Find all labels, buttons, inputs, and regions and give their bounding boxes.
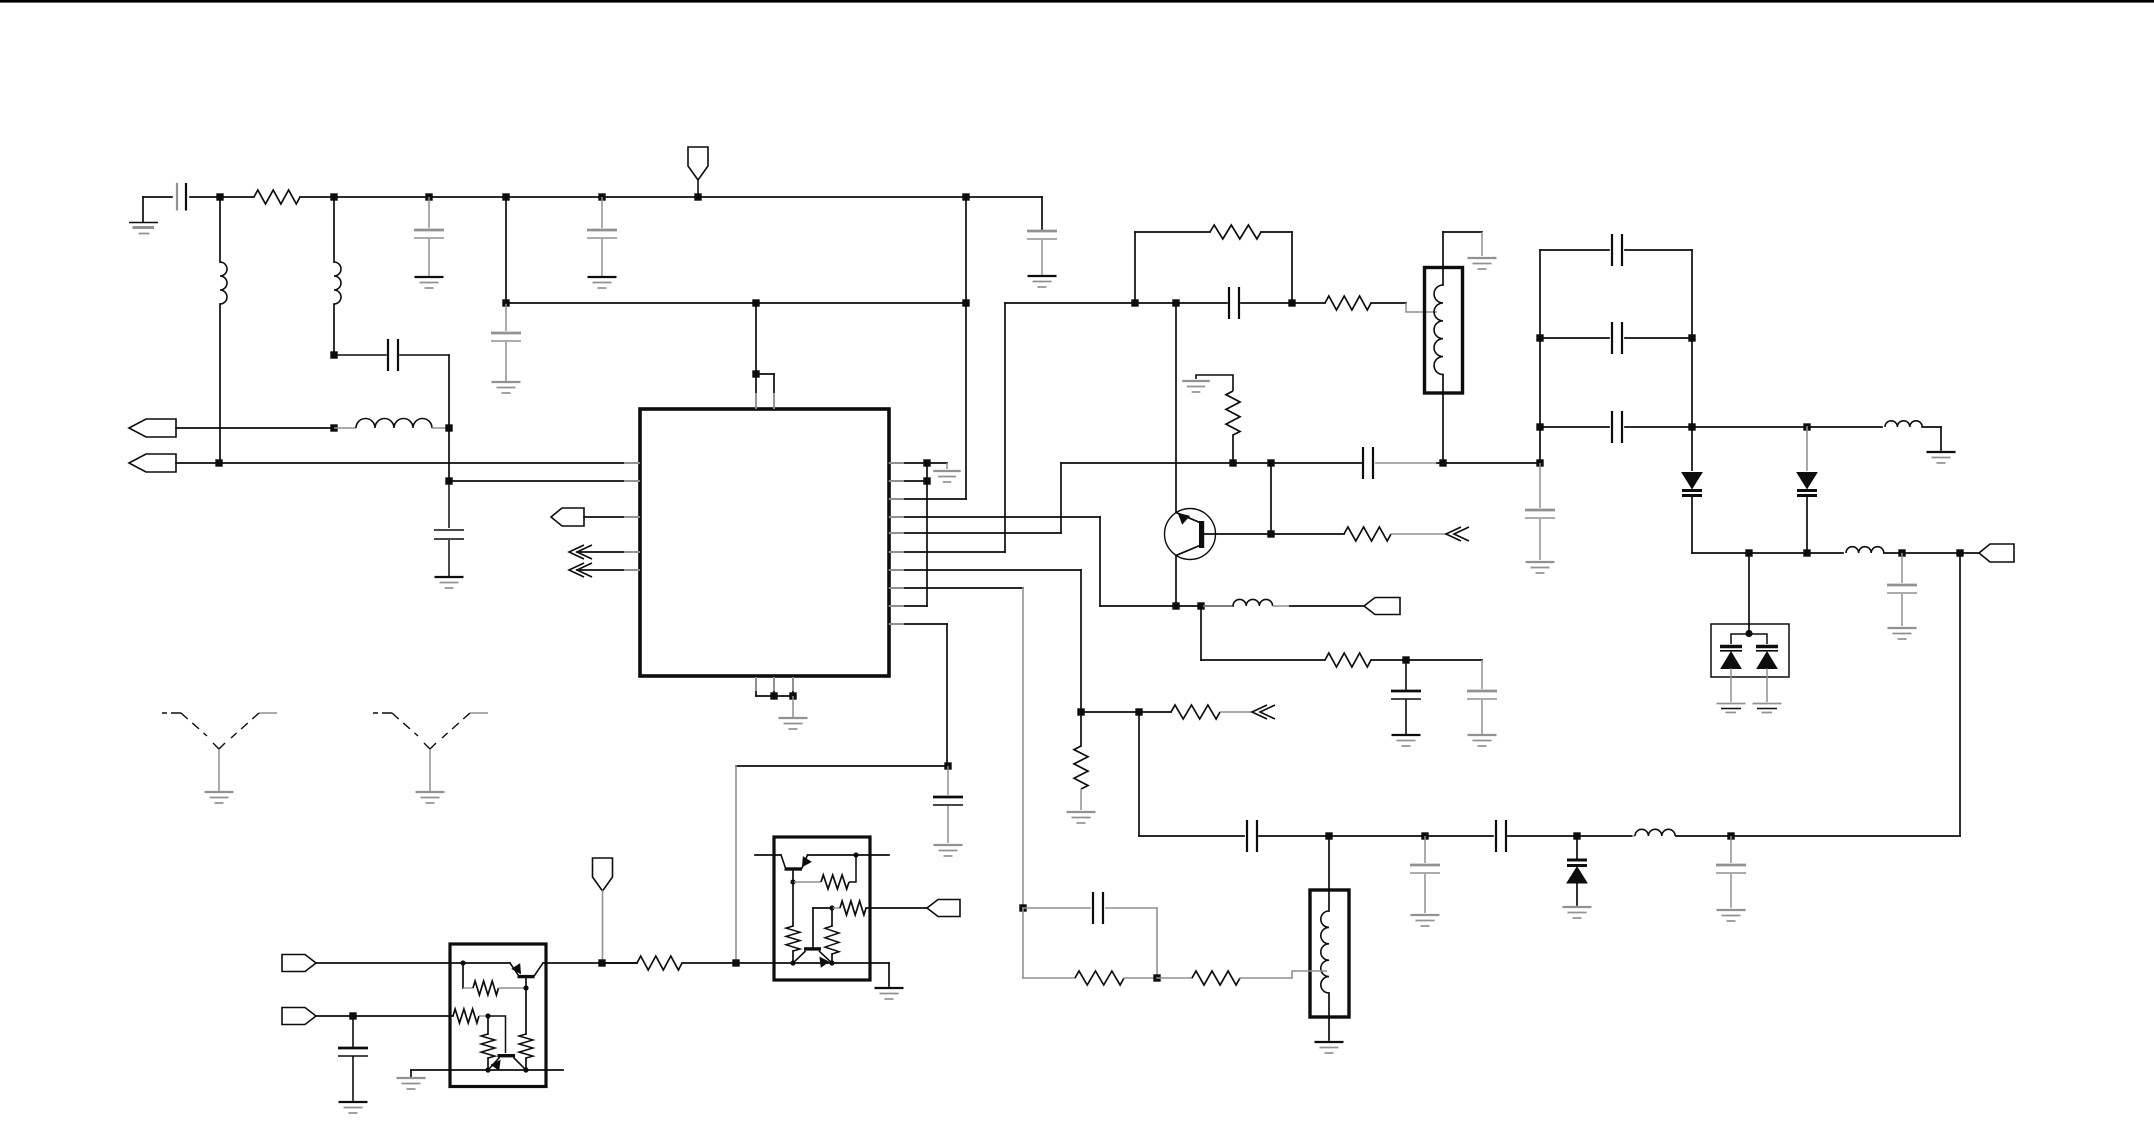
wire (1061, 462, 1361, 464)
wire (1577, 835, 1632, 837)
node J (962, 299, 969, 306)
wire (176, 462, 640, 464)
wire (1481, 232, 1483, 256)
ground (1888, 627, 1917, 629)
resistor R18 (831, 908, 833, 926)
wire (1099, 517, 1101, 606)
chassis symbol AE2 (373, 712, 378, 714)
wire (506, 302, 966, 304)
wire (1134, 232, 1136, 303)
pin stub (624, 516, 640, 518)
diode D5 (1756, 645, 1778, 648)
pin stub (889, 623, 904, 625)
wire (889, 516, 1100, 518)
inductor L7 (1885, 421, 1922, 427)
node A (216, 193, 223, 200)
wire (889, 532, 1061, 534)
inductor L3 (334, 427, 356, 429)
pin stub (792, 677, 794, 691)
ground resistor tap (1196, 375, 1233, 391)
ground (779, 717, 808, 719)
ground (1717, 909, 1746, 911)
wire (1676, 835, 1960, 837)
node AT (1745, 549, 1752, 556)
wire (1005, 302, 1135, 304)
capacitor C14 (1540, 249, 1609, 251)
chassis symbol AE1 (162, 712, 167, 714)
wire (525, 979, 527, 988)
wire (316, 1015, 453, 1017)
page top border (0, 0, 2154, 3)
pin stub (888, 569, 903, 571)
capacitor C12 (1362, 447, 1364, 479)
port P1 (129, 419, 176, 437)
node B (330, 193, 337, 200)
wire (1731, 634, 1767, 644)
node AA (1439, 459, 1446, 466)
inductor L6 (1846, 547, 1884, 553)
ground (934, 844, 963, 846)
diode D3 (1576, 836, 1578, 858)
wire (410, 1070, 412, 1077)
node AU (1803, 549, 1810, 556)
wire (889, 498, 966, 500)
node AY (598, 959, 605, 966)
node X (1172, 299, 1179, 306)
pin stub (888, 498, 903, 500)
wire (1060, 463, 1062, 533)
capacitor C11 (1135, 302, 1227, 304)
node G (962, 193, 969, 200)
pin stub (889, 605, 904, 607)
pin stub (773, 677, 775, 691)
transformer T2 coil (1328, 836, 1330, 911)
wire (1100, 605, 1233, 607)
pin stub (889, 498, 904, 500)
wire (449, 480, 640, 482)
capacitor C6 (334, 354, 386, 356)
pin stub (888, 551, 903, 553)
wire (1270, 463, 1272, 534)
wire (736, 765, 948, 767)
pin stub (889, 516, 904, 518)
wire (176, 427, 334, 429)
capacitor C2 (428, 197, 430, 228)
resistor R16 (832, 907, 840, 909)
node BD (485, 1013, 490, 1018)
wire (755, 374, 757, 409)
capacitor C15 (1540, 337, 1609, 339)
node AB (1536, 459, 1543, 466)
pin stub (889, 569, 904, 571)
resistor R6 (1171, 705, 1220, 719)
ground (1526, 561, 1555, 563)
ground (933, 470, 961, 472)
resistor R7 (1080, 712, 1082, 746)
node D (502, 193, 509, 200)
wire (1175, 303, 1177, 513)
resistor R2 (1210, 225, 1261, 239)
wire (1081, 711, 1171, 713)
TVS box (1711, 624, 1789, 677)
ground (875, 987, 904, 989)
ground (1315, 1041, 1344, 1043)
pin stub (792, 677, 794, 691)
ground (1028, 275, 1057, 277)
node BB (523, 985, 528, 990)
wire (1959, 553, 1961, 836)
resistor R10 (1157, 977, 1192, 979)
pin stub (889, 551, 904, 553)
wire (1261, 231, 1292, 233)
chevron CH3 (1446, 527, 1461, 541)
wire (773, 374, 775, 409)
chevron CH1 (569, 545, 584, 559)
node AH (1135, 708, 1142, 715)
wire (1232, 435, 1234, 463)
inductor L4 (1203, 605, 1233, 607)
capacitor C8 (947, 766, 949, 795)
capacitor C13 (1539, 463, 1541, 508)
wire (1200, 606, 1202, 660)
resistor R13 (487, 1016, 489, 1034)
node E (598, 193, 605, 200)
ground (1067, 811, 1096, 813)
pin stub (755, 393, 757, 409)
wire (812, 908, 814, 947)
resistor R17 (792, 882, 794, 926)
node BI (829, 905, 834, 910)
transistor Q2b (498, 1054, 516, 1057)
wire (756, 373, 774, 375)
node AL (1727, 832, 1734, 839)
wire (946, 463, 948, 469)
wire (792, 872, 794, 883)
port P2 (129, 454, 176, 472)
resistor R14 (525, 988, 527, 1034)
wire (1692, 426, 1882, 428)
pin stub (888, 462, 903, 464)
capacitor C3 (601, 197, 603, 228)
wire (1135, 231, 1210, 233)
pin stub (889, 462, 904, 464)
transformer T1 coil (1442, 232, 1444, 285)
wire (889, 605, 927, 607)
node Q (770, 692, 777, 699)
node I (752, 299, 759, 306)
ground (1468, 734, 1497, 736)
wire (1329, 835, 1493, 837)
node AE (1197, 602, 1204, 609)
wire (792, 676, 794, 696)
wire (773, 676, 775, 696)
pin stub (624, 462, 640, 464)
resistor R8 (602, 962, 637, 964)
wire (755, 303, 757, 374)
wire (926, 463, 928, 606)
port P5 (1364, 598, 1400, 615)
transistor Q2a (510, 963, 519, 976)
pin stub (889, 480, 904, 482)
wire (889, 587, 1023, 589)
node W (1288, 299, 1295, 306)
wire (888, 963, 890, 986)
pin stub (624, 569, 640, 571)
wire (1138, 712, 1140, 836)
pin stub (755, 677, 757, 691)
node K (752, 370, 759, 377)
node AP (1688, 334, 1695, 341)
capacitor C4 (1027, 230, 1057, 233)
resistor R4 (1226, 391, 1240, 435)
wire (577, 569, 640, 571)
port P6 (1979, 544, 2014, 562)
node L (330, 424, 337, 431)
resistor R6a (1201, 659, 1325, 661)
ground (1753, 703, 1782, 705)
pin stub (773, 393, 775, 409)
resistor R12 (453, 1009, 479, 1023)
capacitor C9 (1023, 907, 1090, 909)
pin stub (888, 480, 903, 482)
ground (1411, 914, 1440, 916)
node AR (1688, 423, 1695, 430)
node BH (790, 879, 795, 884)
wire (755, 676, 757, 696)
power port VCC1 (688, 147, 708, 180)
transformer T1 box (1425, 268, 1463, 394)
power port VCC2 (593, 858, 613, 891)
wire (1539, 250, 1541, 463)
block B1 (450, 944, 546, 1087)
transformer T2 box (1310, 890, 1349, 1017)
capacitor C21 (1424, 836, 1426, 863)
inductor L1 (219, 197, 221, 262)
node AV (1898, 549, 1905, 556)
ground (1927, 451, 1956, 453)
inductor L5 (1632, 835, 1635, 837)
wire (946, 624, 948, 766)
node AI (1325, 832, 1332, 839)
pin stub (888, 623, 903, 625)
ground (397, 1077, 426, 1079)
capacitor C22 (1730, 836, 1732, 863)
wire (813, 907, 832, 909)
wire (1156, 908, 1158, 978)
wire (584, 516, 640, 518)
wire (792, 696, 794, 717)
diode D4 (1720, 645, 1742, 648)
capacitor C19 (1246, 820, 1248, 852)
capacitor C17 (1405, 660, 1407, 689)
ground (492, 381, 521, 383)
wire (889, 462, 947, 464)
transistor Q3b (804, 947, 821, 950)
ground (1717, 703, 1746, 705)
wire (1022, 908, 1024, 978)
wire (1041, 197, 1043, 229)
wire (1204, 533, 1271, 535)
wire (1139, 835, 1244, 837)
node AF (1402, 656, 1409, 663)
node AK (1573, 832, 1580, 839)
wire (889, 480, 927, 482)
chevron CH2 (569, 563, 584, 577)
wire (1748, 553, 1750, 633)
wire (505, 303, 507, 331)
wire (735, 766, 737, 963)
transistor Q3a (781, 855, 786, 868)
capacitor C7 (448, 481, 450, 528)
node C (425, 193, 432, 200)
wire (793, 962, 889, 964)
ground (1563, 906, 1592, 908)
node AC (1267, 530, 1274, 537)
port P7 (282, 955, 316, 972)
wire (448, 355, 450, 481)
wire (488, 1016, 506, 1053)
wire (577, 551, 640, 553)
node AW (1956, 549, 1963, 556)
node AM (1019, 904, 1026, 911)
node T (923, 477, 930, 484)
node AG (1077, 708, 1084, 715)
wire (1175, 556, 1177, 607)
pin stub (888, 516, 903, 518)
diode D1 (1682, 473, 1702, 489)
capacitor C18 (1481, 660, 1483, 689)
node BK (829, 960, 834, 965)
wire (1940, 427, 1942, 450)
node BC (349, 1012, 356, 1019)
node N (445, 424, 452, 431)
node BF (523, 1067, 528, 1072)
ground (415, 276, 444, 278)
wire (965, 197, 967, 499)
wire (889, 551, 1005, 553)
wire (889, 569, 1081, 571)
wire (808, 854, 890, 856)
node AD (1172, 602, 1179, 609)
node F (694, 193, 701, 200)
wire (505, 197, 507, 303)
node AN (1153, 974, 1160, 981)
wire (1406, 303, 1437, 312)
node V (1131, 299, 1138, 306)
node AX (1745, 630, 1752, 637)
block B2 (774, 837, 870, 980)
wire (411, 1069, 563, 1071)
chevron CH4 (1252, 705, 1267, 719)
ground (1468, 257, 1497, 259)
port P3 (551, 508, 584, 526)
pin stub (888, 587, 903, 589)
wire (316, 962, 510, 964)
resistor R5 (1271, 533, 1344, 535)
node P (215, 459, 222, 466)
capacitor C1 (143, 196, 172, 198)
pin stub (773, 677, 775, 691)
wire (1022, 588, 1024, 908)
capacitor C10 (352, 1016, 354, 1046)
transistor Q1 (1165, 509, 1216, 560)
wire (1691, 250, 1693, 470)
diode D2 (1806, 427, 1808, 470)
resistor R3 (1292, 302, 1325, 304)
wire (1291, 232, 1293, 303)
ground (435, 576, 464, 578)
node R (789, 692, 796, 699)
node AQ (1536, 423, 1543, 430)
wire (1692, 552, 1843, 554)
pin stub (888, 532, 903, 534)
capacitor C23 (1901, 553, 1903, 583)
node O (445, 477, 452, 484)
wire (756, 695, 793, 697)
ground (588, 276, 617, 278)
node BA (460, 960, 465, 965)
wire (889, 623, 947, 625)
capacitor C16 (1540, 426, 1609, 428)
pin stub (755, 677, 757, 691)
wire (1004, 303, 1006, 552)
wire (1292, 971, 1327, 978)
resistor R9 (1023, 977, 1075, 979)
inductor L2 (333, 197, 335, 262)
node AO (1536, 334, 1543, 341)
node Y (1229, 459, 1236, 466)
ground (1392, 734, 1421, 736)
node BJ (790, 960, 795, 965)
wire (300, 196, 1042, 198)
node AZ (732, 959, 739, 966)
IC U1 (640, 409, 889, 676)
port P8 (282, 1008, 316, 1025)
port P4 (927, 900, 960, 917)
wire (1437, 462, 1540, 464)
node BE (485, 1067, 490, 1072)
node AS (1803, 423, 1810, 430)
node BG (853, 852, 858, 857)
node M (330, 351, 337, 358)
resistor R15 (793, 881, 821, 883)
node H (502, 299, 509, 306)
capacitor C5 (491, 332, 521, 335)
capacitor C20 (1495, 820, 1497, 852)
pin stub (889, 532, 904, 534)
resistor R1 (254, 190, 300, 204)
node AJ (1421, 832, 1428, 839)
node U (944, 762, 951, 769)
resistor R11 (462, 963, 464, 988)
node S (923, 459, 930, 466)
node Z (1267, 459, 1274, 466)
wire (1443, 231, 1482, 233)
wire (1080, 570, 1082, 712)
pin stub (889, 587, 904, 589)
pin stub (624, 551, 640, 553)
pin stub (888, 605, 903, 607)
wire (755, 854, 781, 856)
ground (142, 197, 144, 222)
ground (1182, 380, 1210, 382)
ground (339, 1101, 368, 1103)
pin stub (624, 480, 640, 482)
wire (543, 962, 637, 964)
